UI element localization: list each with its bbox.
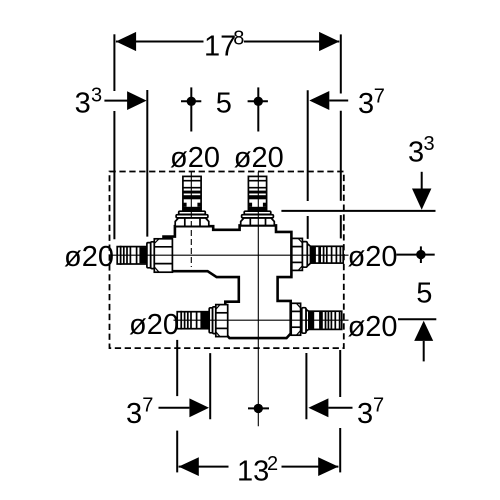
dashed enclosure box (110, 172, 344, 349)
svg-text:ø20: ø20 (234, 142, 284, 174)
svg-text:ø20: ø20 (348, 311, 398, 343)
dimension 13.2 bottom (179, 466, 339, 468)
svg-text:ø20: ø20 (348, 241, 398, 273)
bottom center node dot (248, 407, 269, 409)
dimension 3.7 top-right (308, 90, 349, 239)
connector port top-left vertical: push-fit tube (175, 176, 209, 226)
dimension 3.3 top-left (104, 90, 147, 237)
svg-text:2: 2 (267, 453, 278, 475)
centerline horizontal lower ports (174, 319, 349, 321)
svg-text:7: 7 (373, 395, 384, 417)
svg-text:ø20: ø20 (170, 142, 220, 174)
connector port top-right vertical: push-fit tube (241, 176, 275, 225)
svg-text:3: 3 (91, 84, 102, 106)
svg-text:7: 7 (374, 85, 385, 107)
connector port lower-left: push-fit tube (177, 305, 228, 337)
svg-text:17: 17 (204, 31, 236, 63)
svg-text:ø20: ø20 (129, 309, 179, 341)
svg-text:3: 3 (126, 398, 142, 430)
svg-text:3: 3 (75, 88, 91, 120)
svg-text:5: 5 (416, 277, 432, 309)
dimension 5 top with two node dots (181, 87, 268, 131)
manifold body outline (164, 225, 292, 338)
centerline vertical right port (257, 172, 259, 426)
svg-text:ø20: ø20 (64, 241, 114, 273)
connector port upper-left: push-fit tube (117, 239, 172, 272)
svg-text:3: 3 (358, 88, 374, 120)
bottom dimension row: 3.7 right (306, 350, 352, 472)
svg-text:5: 5 (216, 88, 232, 120)
dimension 17.8 top (114, 34, 340, 239)
svg-text:7: 7 (142, 395, 153, 417)
extension line for body top edge, right (281, 210, 435, 212)
centerline vertical left port (190, 172, 192, 210)
centerline horizontal upper ports (112, 254, 349, 256)
svg-text:8: 8 (233, 27, 244, 49)
connector port upper-right: push-fit tube (292, 238, 343, 270)
svg-text:3: 3 (424, 133, 435, 155)
bottom dimension row: 3.7 left (159, 340, 211, 473)
svg-text:3: 3 (357, 398, 373, 430)
connector port lower-right: push-fit tube (291, 303, 341, 335)
svg-text:3: 3 (408, 137, 424, 169)
svg-text:13: 13 (237, 456, 269, 488)
